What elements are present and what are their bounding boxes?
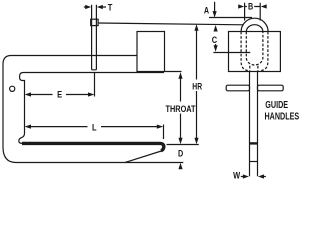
svg-text:W: W	[233, 171, 240, 181]
svg-text:C: C	[212, 35, 218, 45]
svg-text:B: B	[248, 1, 253, 11]
svg-text:L: L	[92, 123, 97, 133]
svg-text:A: A	[204, 5, 209, 15]
svg-text:HANDLES: HANDLES	[265, 112, 300, 123]
svg-text:GUIDE: GUIDE	[265, 100, 288, 111]
svg-text:D: D	[178, 148, 183, 158]
svg-text:E: E	[57, 90, 62, 100]
svg-text:THROAT: THROAT	[166, 104, 196, 114]
svg-text:HR: HR	[192, 82, 202, 92]
svg-text:T: T	[108, 2, 113, 12]
